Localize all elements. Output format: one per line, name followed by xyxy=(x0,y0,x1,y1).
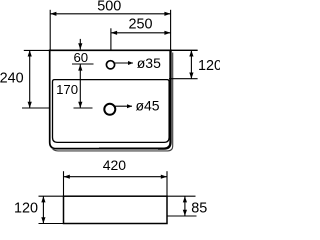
svg-text:250: 250 xyxy=(128,17,152,33)
dimension 85 (front apron height, right) xyxy=(183,196,207,216)
dimension 250 (hole centre to right edge) xyxy=(111,17,171,50)
label ø45 with leader arrow xyxy=(115,98,160,114)
svg-text:ø35: ø35 xyxy=(137,55,161,71)
dimension 500 (overall width) xyxy=(50,0,170,50)
svg-text:120: 120 xyxy=(14,200,38,216)
plan view: basin outer outline xyxy=(49,50,172,148)
svg-text:120: 120 xyxy=(198,58,220,74)
svg-text:85: 85 xyxy=(191,201,207,217)
svg-text:240: 240 xyxy=(0,70,24,86)
dimension 170 (faucet hole to drain hole centres) xyxy=(56,64,92,108)
svg-text:170: 170 xyxy=(56,82,78,97)
faucet hole (circle) xyxy=(106,61,114,69)
svg-text:420: 420 xyxy=(103,157,127,173)
svg-text:500: 500 xyxy=(97,0,121,15)
front view: body rectangle xyxy=(39,196,197,223)
dimension 240 (front edge to drain centre) xyxy=(0,50,49,108)
dimension 60 (top edge to faucet hole centre) xyxy=(72,39,94,65)
svg-text:ø45: ø45 xyxy=(135,98,159,114)
dimension 420 (mounting width) xyxy=(64,157,168,196)
dimension 120 (body height, left) xyxy=(14,196,46,223)
plan view: extended top edge / extension line xyxy=(24,49,198,51)
plan view: basin inner rim xyxy=(53,80,170,143)
dimension 120 (deck depth, right side) xyxy=(169,50,222,78)
label ø35 with leader arrow xyxy=(115,55,162,71)
drain hole (circle) xyxy=(104,104,115,115)
plan view: basin outline shadow edge xyxy=(52,53,173,151)
svg-text:60: 60 xyxy=(73,50,88,65)
